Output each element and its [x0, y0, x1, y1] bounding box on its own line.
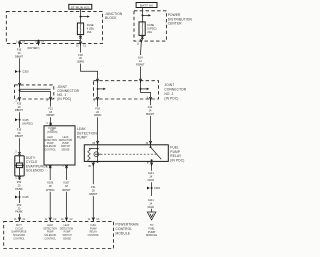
- svg-text:DB/WT: DB/WT: [15, 134, 24, 138]
- svg-text:F18: F18: [78, 53, 83, 57]
- wire A141 upper segment: [151, 166, 153, 171]
- duty cycle evap/purge solenoid: [15, 156, 24, 176]
- svg-text:C200: C200: [22, 70, 29, 74]
- svg-text:F15: F15: [17, 127, 22, 131]
- svg-text:PUMP: PUMP: [47, 143, 54, 145]
- wire F12 below JC1 right drop: [50, 99, 52, 107]
- fuse (PDC): [139, 22, 145, 36]
- svg-text:NO. 2: NO. 2: [164, 92, 173, 96]
- svg-text:CONTROL: CONTROL: [88, 235, 100, 237]
- PCM terminal C3: [92, 218, 95, 222]
- terminal X below fuse 9: [79, 36, 82, 39]
- svg-text:RD/WT: RD/WT: [146, 112, 155, 116]
- svg-text:PUMP: PUMP: [62, 143, 69, 145]
- svg-text:SOLENOID: SOLENOID: [13, 235, 25, 237]
- svg-text:DB/WT: DB/WT: [46, 113, 55, 117]
- svg-text:(IN PDC): (IN PDC): [170, 158, 184, 162]
- svg-text:9 (JB): 9 (JB): [87, 26, 94, 30]
- wire A14 upper segment: [140, 41, 143, 55]
- svg-text:CENTER: CENTER: [168, 22, 183, 26]
- svg-text:F15: F15: [17, 101, 22, 105]
- wire fuse output: [141, 35, 144, 41]
- svg-text:LEAK: LEAK: [47, 224, 53, 227]
- svg-text:SOLENOID: SOLENOID: [26, 169, 44, 173]
- powertrain control module dashed box: [4, 221, 114, 248]
- junction block label: [105, 12, 123, 20]
- svg-text:BATT A0: BATT A0: [140, 4, 153, 8]
- LDP pin name: fused ign (st-run): [47, 128, 57, 134]
- wire K106 upper segment: [49, 165, 51, 180]
- svg-text:LB/RD: LB/RD: [77, 60, 85, 64]
- wire F15 below JC1: [19, 99, 21, 102]
- wire F18 label 2: [94, 106, 102, 117]
- svg-text:C135: C135: [22, 195, 29, 199]
- svg-text:ST-RUN A21: ST-RUN A21: [71, 6, 90, 10]
- junction dot and bus arrow JC2 right: [140, 88, 150, 90]
- svg-text:A14: A14: [138, 56, 143, 60]
- svg-text:P32: P32: [17, 203, 22, 207]
- relay terminal 87: [150, 160, 153, 166]
- joint connector no.1 label: [57, 85, 79, 101]
- junction dot at PDC fuse feed: [142, 14, 144, 16]
- svg-text:DB/WT: DB/WT: [89, 192, 98, 196]
- svg-text:LEAK: LEAK: [64, 224, 70, 227]
- PCM pin name: LDP switch sense: [60, 224, 74, 241]
- wire BATT A0 to fuse: [142, 8, 144, 22]
- connector C4 left at junction block edge: [18, 42, 21, 46]
- PCM terminal C1: [18, 218, 21, 222]
- connector terminal at PDC edge: [140, 39, 143, 43]
- wire A14 label: [136, 56, 145, 67]
- joint connector no.1 dashed box: [15, 85, 54, 99]
- LDP pin name: LDP switch sense: [59, 136, 73, 151]
- connector terminal JC2 top left: [96, 79, 99, 83]
- svg-text:F18: F18: [95, 106, 100, 110]
- junction dot JC1 entry: [18, 83, 21, 87]
- wire A14 below JC2: [150, 99, 152, 105]
- junction block dashed box: [6, 11, 102, 43]
- svg-text:CYCLE: CYCLE: [15, 228, 23, 230]
- junction dot on bus: [38, 40, 40, 42]
- wire A14 label 2: [146, 105, 155, 116]
- wire F15 to C200: [19, 58, 21, 85]
- wire bus left drop: [19, 41, 21, 43]
- wire JC1 right drop: [50, 91, 52, 99]
- power distribution center label: [168, 13, 193, 25]
- wire F15 upper segment: [19, 43, 21, 47]
- wire A141 to C282: [151, 182, 153, 196]
- svg-text:CONTROL: CONTROL: [45, 239, 57, 241]
- wire A141 to off-page arrow: [151, 209, 153, 212]
- svg-text:(BATTERY): (BATTERY): [28, 47, 40, 50]
- wire P32 to PCM: [19, 214, 21, 221]
- joint connector no.2 dashed box: [94, 81, 159, 99]
- connector terminal JC1 bottom left: [18, 97, 21, 101]
- wire F15 label: [15, 48, 24, 59]
- svg-text:DB/WT: DB/WT: [15, 54, 24, 58]
- svg-text:DETECTION: DETECTION: [43, 140, 57, 142]
- wire A14 to relay contact: [150, 116, 152, 145]
- wire F15 label 2: [15, 101, 24, 112]
- connector C1 at junction block edge below fuse: [79, 42, 82, 46]
- svg-text:DB/WT: DB/WT: [15, 108, 24, 112]
- wire K107 label: [62, 181, 71, 192]
- wire P32 label 2: [15, 203, 23, 214]
- terminal X LDP bottom left pin: [49, 166, 52, 169]
- fuse F9 value label: [87, 23, 94, 34]
- svg-text:(ST-RUN): (ST-RUN): [47, 132, 57, 134]
- svg-text:RD/WT: RD/WT: [136, 63, 145, 67]
- connector C282: [147, 186, 161, 190]
- svg-text:JOINT: JOINT: [164, 83, 174, 87]
- svg-text:CONTROL: CONTROL: [13, 239, 25, 241]
- svg-text:BR/WT: BR/WT: [62, 188, 71, 192]
- svg-text:5 (PDC): 5 (PDC): [147, 26, 156, 30]
- LDP pin name: LDP solenoid control: [43, 136, 57, 151]
- powertrain control module label: [116, 223, 140, 236]
- terminal X LDP bottom right pin: [65, 166, 68, 169]
- fuel pump relay box: [84, 145, 168, 162]
- svg-text:(IN PDC): (IN PDC): [22, 121, 32, 125]
- terminal X solenoid top: [18, 152, 21, 155]
- connector C135 lower: [15, 195, 29, 199]
- wire F15 to C135: [19, 112, 21, 128]
- svg-text:DG/R: DG/R: [148, 205, 155, 209]
- wire K107 to PCM: [66, 192, 68, 221]
- wire A14 to JC2: [140, 67, 142, 81]
- svg-text:RELAY: RELAY: [90, 231, 98, 234]
- svg-text:C282: C282: [154, 186, 161, 190]
- svg-text:FUSE: FUSE: [87, 23, 94, 27]
- wire fuse 9 output to bus: [80, 35, 82, 43]
- svg-text:DG/R: DG/R: [148, 178, 155, 182]
- connector terminal JC2 bottom right: [149, 97, 152, 101]
- joint connector no.1 bus bar: [19, 89, 51, 91]
- svg-text:C135: C135: [22, 118, 29, 122]
- svg-text:LB/RD: LB/RD: [94, 113, 102, 117]
- svg-text:P32: P32: [17, 180, 22, 184]
- wire K106 label: [46, 181, 55, 192]
- net label: to fuel pump module: [146, 223, 157, 237]
- wire F18 corner run to JC2: [81, 64, 98, 81]
- leak detection pump label: [77, 127, 97, 139]
- svg-text:(IN PDC): (IN PDC): [164, 97, 178, 101]
- wire F18 below JC2: [97, 99, 99, 107]
- svg-text:PUMP: PUMP: [77, 136, 87, 140]
- svg-text:F15: F15: [17, 48, 22, 52]
- relay terminal 30: [149, 141, 152, 145]
- relay armature pickup circle: [94, 152, 101, 157]
- arrow to other circuits (PDC): [143, 14, 152, 16]
- wire bus middle stub (battery feed): [38, 41, 40, 46]
- connector terminal JC1 bottom right: [49, 97, 52, 101]
- wire K107 upper segment: [66, 165, 68, 180]
- svg-text:PUMP: PUMP: [90, 228, 97, 230]
- wire K31 label: [89, 185, 98, 196]
- wire K31 upper segment: [92, 166, 94, 184]
- svg-text:A141: A141: [148, 171, 155, 175]
- wire P32 upper segment: [19, 176, 21, 180]
- wire F18 label: [77, 53, 85, 64]
- wire K106 to PCM: [49, 192, 51, 221]
- wire F15 label 3: [15, 127, 24, 138]
- svg-text:SOLENOID: SOLENOID: [44, 146, 56, 148]
- PCM pin name: fuel pump relay control: [88, 225, 100, 237]
- svg-text:WT/DG: WT/DG: [46, 188, 55, 192]
- terminal X below PDC fuse: [141, 36, 144, 39]
- svg-text:EVAP/PURGE: EVAP/PURGE: [12, 231, 27, 234]
- wire F12 label: [46, 106, 55, 117]
- connector C200: [15, 70, 29, 74]
- svg-text:SENSE: SENSE: [62, 149, 70, 151]
- connector terminal JC2 bottom left: [96, 97, 99, 101]
- svg-text:15A: 15A: [87, 30, 92, 34]
- svg-text:A141: A141: [148, 198, 155, 202]
- svg-text:FUSE: FUSE: [147, 23, 154, 27]
- fuel pump relay label: [170, 146, 184, 163]
- junction dot at fuse feed: [80, 16, 82, 18]
- svg-text:20A: 20A: [147, 30, 152, 34]
- svg-text:FUEL: FUEL: [90, 225, 97, 227]
- power distribution center dashed box: [134, 11, 166, 41]
- svg-text:DETECTION: DETECTION: [59, 140, 73, 142]
- svg-text:SENSE: SENSE: [63, 239, 71, 241]
- svg-text:CONNECTOR: CONNECTOR: [164, 88, 186, 92]
- wire through JC1 left: [19, 85, 21, 99]
- wire F15 to solenoid: [19, 138, 21, 156]
- connector terminal JC2 top right: [139, 79, 142, 83]
- duty cycle solenoid label: [26, 156, 48, 173]
- svg-text:BLOCK: BLOCK: [105, 16, 117, 20]
- connector C135: [15, 118, 33, 126]
- svg-text:SOLENOID: SOLENOID: [44, 235, 56, 237]
- svg-text:DETECTION: DETECTION: [43, 228, 57, 230]
- joint connector no.2 label: [164, 83, 186, 101]
- svg-text:(IN PDC): (IN PDC): [57, 97, 71, 101]
- node ST-RUN A21 source box: [69, 4, 92, 9]
- PCM terminal C2 right: [65, 218, 68, 222]
- wire from ST-RUN A21 to fuse 9: [80, 9, 82, 23]
- leak detection pump box: [44, 126, 75, 165]
- wire P32 label: [15, 180, 23, 191]
- svg-text:K107: K107: [64, 181, 71, 185]
- svg-text:MODULE: MODULE: [146, 233, 157, 237]
- node BATT A0 source box: [136, 3, 157, 8]
- svg-text:CONTROL: CONTROL: [45, 149, 57, 151]
- fuse F9 (junction block): [77, 23, 83, 35]
- wire F18 upper segment below fuse connector: [80, 43, 82, 52]
- svg-text:PUMP: PUMP: [47, 232, 54, 234]
- junction dot and bus arrow JC2 left: [97, 88, 106, 90]
- svg-text:CONTROL: CONTROL: [116, 227, 133, 231]
- svg-text:A14: A14: [148, 105, 153, 109]
- PCM pin name: LDP solenoid control: [43, 224, 57, 241]
- svg-text:K31: K31: [91, 185, 96, 189]
- PCM terminal C2 left: [49, 218, 52, 222]
- fuse (PDC) value label: [147, 23, 156, 34]
- relay contact and armature: [150, 145, 162, 161]
- svg-text:DETECTION: DETECTION: [60, 228, 74, 230]
- terminal X solenoid bottom: [18, 177, 21, 180]
- svg-text:SWITCH: SWITCH: [62, 235, 72, 237]
- svg-text:LEAK: LEAK: [47, 136, 53, 139]
- svg-text:MODULE: MODULE: [116, 232, 131, 236]
- svg-text:PK/BK: PK/BK: [15, 210, 23, 214]
- svg-text:PUMP: PUMP: [64, 232, 71, 234]
- svg-text:F12: F12: [48, 106, 53, 110]
- wire P32 to C135 lower: [19, 191, 21, 203]
- relay terminal 86: [96, 141, 99, 145]
- off-page connector triangle to fuel pump module: [147, 212, 156, 220]
- svg-text:LEAK: LEAK: [63, 136, 69, 139]
- svg-text:K106: K106: [47, 181, 54, 185]
- wire A141 label: [148, 171, 155, 182]
- terminal X LDP top pin: [49, 123, 52, 126]
- wire A141 label 2: [148, 198, 155, 209]
- relay terminal 85: [92, 162, 95, 167]
- svg-text:SWITCH: SWITCH: [61, 146, 71, 148]
- arrow to other circuits (junction block): [81, 15, 90, 17]
- PCM pin name: duty cycle evap/purge solenoid control: [12, 225, 27, 241]
- svg-text:DUTY: DUTY: [16, 225, 23, 227]
- wire F12 to LDP: [50, 117, 52, 126]
- wire A14 jog inside JC2: [141, 81, 151, 99]
- relay mechanical linkage (dashed): [101, 153, 157, 155]
- junction block output bus: [20, 40, 81, 42]
- wire K31 to PCM: [92, 196, 94, 221]
- svg-text:POWERTRAIN: POWERTRAIN: [116, 223, 140, 227]
- svg-text:PK/BK: PK/BK: [15, 187, 23, 191]
- wire F18 to relay coil: [97, 117, 99, 145]
- relay coil circuit: [88, 145, 99, 163]
- connector C4 middle at junction block edge: [37, 42, 40, 46]
- wire F18 through JC2: [97, 81, 99, 99]
